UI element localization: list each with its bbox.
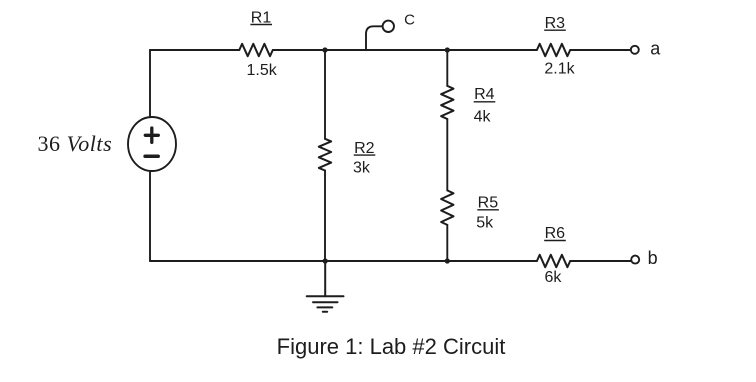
wire top right (R4 junction to R3) [447, 49, 537, 51]
svg-text:36 Volts: 36 Volts [38, 131, 113, 156]
wire R6 to terminal b [570, 260, 631, 262]
svg-text:Figure 1: Lab #2 Circuit: Figure 1: Lab #2 Circuit [277, 334, 506, 359]
label R6 [544, 225, 566, 242]
svg-text:a: a [650, 39, 661, 59]
resistor R1 [239, 44, 272, 56]
resistor R6 [537, 255, 570, 267]
label R1 [250, 9, 272, 26]
wire left rail lower (source - to bottom wire) [149, 171, 151, 261]
wire R4 rail upper [446, 50, 448, 86]
resistor R4 [441, 86, 453, 119]
wire top middle (R2 junction to R4 junction) [325, 49, 447, 51]
svg-text:2.1k: 2.1k [544, 60, 575, 77]
wire R1 to node C junction [273, 49, 325, 51]
wire left rail upper (top wire to source +) [149, 50, 151, 117]
resistor R3 [537, 44, 570, 56]
terminal C circle [383, 21, 394, 32]
wire bottom left (source to ground junction) [150, 260, 325, 262]
label R3 [544, 15, 566, 32]
resistor R5 [441, 190, 453, 225]
svg-text:R3: R3 [545, 15, 566, 32]
svg-text:3k: 3k [353, 159, 371, 176]
svg-text:5k: 5k [476, 215, 494, 232]
node junction dot (R4 top) [445, 47, 450, 52]
ground symbol [307, 261, 344, 312]
wire top-left horizontal (source to R1) [150, 49, 239, 51]
label R2 [354, 140, 376, 157]
svg-text:R1: R1 [251, 9, 272, 26]
wire R3 to terminal a [570, 49, 631, 51]
svg-text:R2: R2 [354, 140, 375, 157]
wire R2 rail lower [324, 171, 326, 262]
wire R2 rail upper [324, 50, 326, 139]
terminal b circle [631, 256, 639, 264]
svg-text:C: C [404, 12, 415, 29]
resistor R2 [319, 139, 331, 171]
terminal a circle [631, 46, 639, 54]
svg-text:6k: 6k [544, 269, 562, 286]
node junction dot (R5 bottom) [445, 258, 450, 263]
wire between R4 and R5 [446, 119, 448, 190]
node junction dot (ground) [323, 258, 328, 263]
wire bottom middle (ground junction to R5 junction) [325, 260, 447, 262]
svg-text:R4: R4 [474, 86, 495, 103]
voltage source V1 36 Volts [128, 117, 176, 171]
svg-text:R5: R5 [478, 195, 499, 212]
wire R5 rail lower [446, 225, 448, 261]
node junction dot (R2 top) [322, 47, 327, 52]
label R5 [477, 195, 499, 212]
svg-text:1.5k: 1.5k [246, 62, 277, 79]
terminal C tap wire [366, 26, 382, 50]
svg-text:b: b [648, 248, 658, 268]
svg-text:4k: 4k [474, 109, 492, 126]
wire bottom right (R5 junction to R6) [447, 260, 537, 262]
svg-text:R6: R6 [545, 225, 566, 242]
label R4 [474, 86, 496, 103]
